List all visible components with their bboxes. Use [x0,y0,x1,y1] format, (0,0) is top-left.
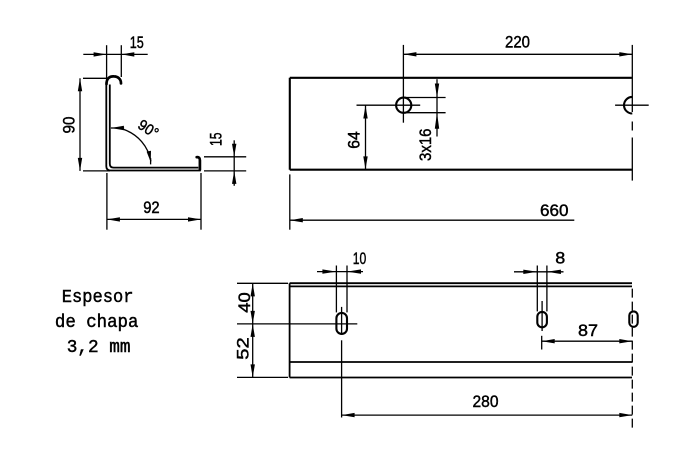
dim 15 right lip : arrows [232,144,236,157]
svg-text:3x16: 3x16 [416,129,435,162]
dim 87 : arrows [542,339,555,343]
dim 15 top : extension lines [106,45,108,83]
hole H1 circle [396,98,411,113]
angle dim 90deg : arc [124,129,151,161]
dim 3x16 : arrows [435,84,439,98]
angle dim 90deg : leader line [111,127,124,129]
dim 8 : arrows [523,270,537,274]
dim 3x16 : dimension line [436,79,438,136]
svg-text:15: 15 [207,133,226,147]
dim 8 : extension lines [536,266,538,312]
svg-text:280: 280 [473,392,499,411]
hole H1 horizontal centerline [357,104,421,106]
dim 660 : dimension line [290,219,575,221]
plate outline left edge [289,78,291,170]
dim 90 left : extension lines [83,77,108,79]
slot S3 dashed centerline [631,289,633,429]
hole H1 vertical centerline [402,45,404,123]
dim 220 : dimension line [403,53,632,55]
svg-text:40: 40 [235,292,254,313]
dim 40/52 : extension lines [237,282,288,284]
slot S1 horizontal centerline [237,323,357,325]
dim 92 bottom : extension lines [106,173,108,230]
slot S2 vertical centerline [541,301,543,331]
dim 40 : arrows [251,283,255,296]
dim 90 left : arrows [78,78,82,91]
flat bend line lower [290,361,632,363]
angle dim 90deg : tail [150,158,152,164]
dim 3x16 : extension lines [405,97,446,99]
dim 15 right lip : extension lines [204,156,246,158]
dim 92 bottom : dimension line [107,218,201,220]
dim 10 : dimension line [317,271,363,273]
svg-text:52: 52 [233,337,252,360]
dim 8 : dimension line [514,271,564,273]
svg-text:10: 10 [353,249,367,268]
angle dim 90deg : leader arrow [111,126,124,130]
dim 64 : arrows [363,106,367,119]
svg-text:15: 15 [130,33,144,52]
svg-text:87: 87 [578,321,598,340]
slot S3 [629,311,637,326]
dim 52 : arrows [251,324,255,337]
dim 660 : arrow [290,218,303,222]
svg-text:64: 64 [344,131,363,149]
svg-text:660: 660 [540,201,569,220]
slot S1 [336,313,347,334]
dim 92 bottom : arrows [107,217,120,221]
dim 87 : dimension line [542,340,633,342]
svg-text:3,2 mm: 3,2 mm [67,338,131,358]
flat left edge [289,283,291,377]
flat top edge [290,282,632,284]
profile top hem curl [107,76,122,84]
profile right lip [197,157,200,169]
profile web inner line [110,85,199,168]
flat bend line upper [290,285,632,287]
svg-text:Espesor: Espesor [62,288,134,308]
dim 64 : dimension line [365,106,367,170]
dim 90 left : dimension line [79,78,81,171]
dim 280 : arrows [342,413,355,417]
dim 280 : dimension line [342,414,633,416]
dim 10 : extension lines [335,266,337,313]
svg-text:90: 90 [59,117,78,134]
plate outline bottom edge [290,169,632,171]
slot S1 vertical centerline [341,307,343,335]
dim 15 top : dimension line [83,53,147,55]
half hole H2 horizontal centerline [615,104,649,106]
profile web outer line [106,82,201,171]
half hole H2 at right edge [624,97,632,114]
dim 40/52 : dimension line [252,283,254,377]
plate right break/extension line [631,45,633,112]
svg-text:de chapa: de chapa [55,313,139,333]
dim 15 top : arrows [94,52,107,56]
dim 660 : extension line [289,174,291,229]
dim 10 : arrows [322,269,336,273]
svg-text:92: 92 [143,198,160,217]
svg-text:220: 220 [505,32,530,51]
dim 220 : arrows [403,52,416,56]
dim 15 right lip : dimension line [233,140,235,186]
angle dim 90deg : end arrow [147,151,151,162]
flat bottom edge [290,377,632,379]
plate outline top edge [290,77,632,79]
svg-text:8: 8 [555,249,565,268]
slot S2 [537,312,547,327]
